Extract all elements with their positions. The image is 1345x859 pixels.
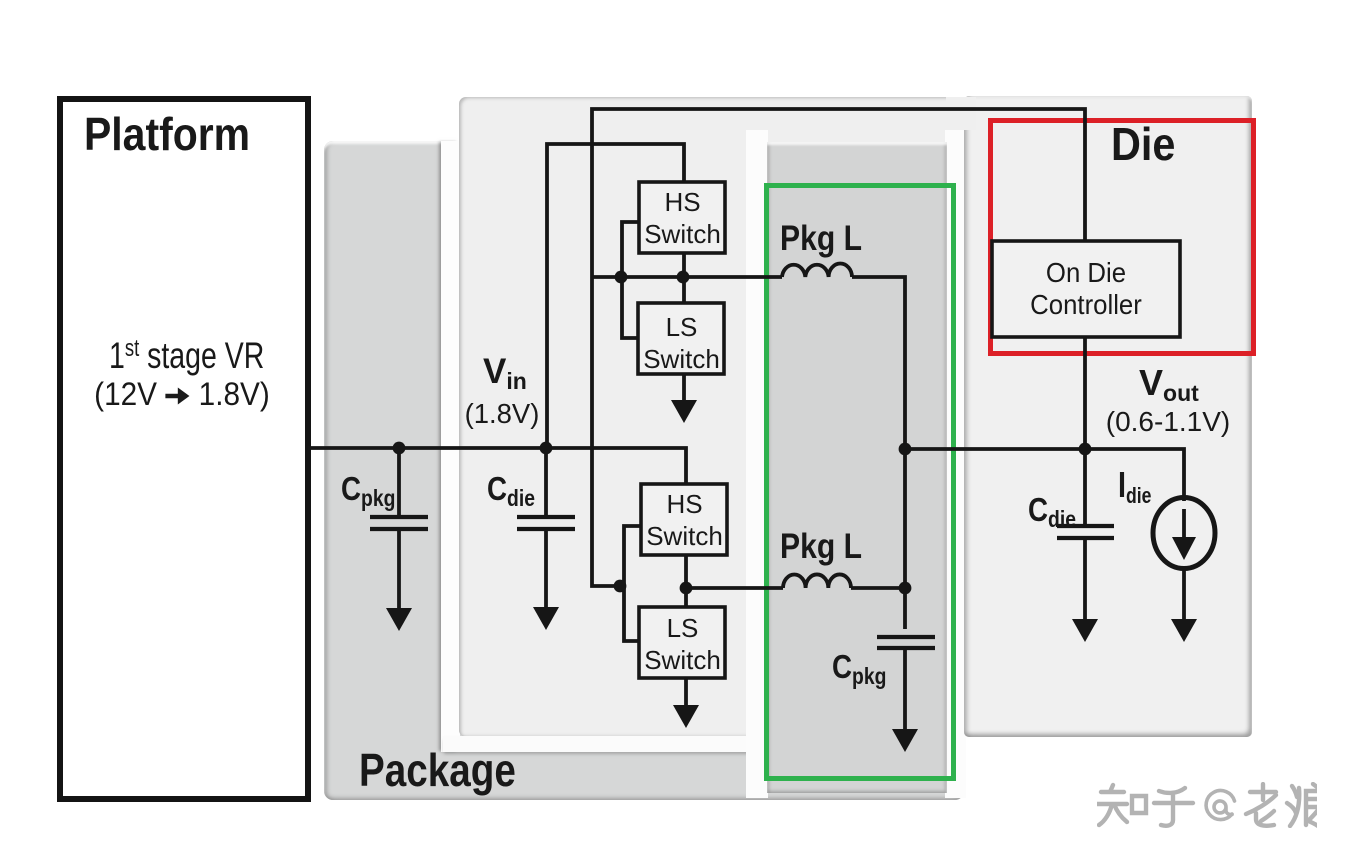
- label (12V -> 1.8V): [89, 378, 275, 410]
- wire: controller bottom to Vout bus: [1083, 337, 1087, 449]
- capacitor Cpkg1: [370, 448, 428, 610]
- label LS Switch 1: [639, 311, 724, 375]
- ground arrow Cpkg2: [892, 729, 918, 752]
- middle dark column (Pkg L / Cpkg column): [767, 142, 947, 793]
- watermark zhihu at laolang: [1097, 782, 1317, 828]
- groove right of middle dark column: [945, 130, 966, 798]
- ground arrow LS1: [671, 400, 697, 423]
- wire: phase2 line to inductor: [686, 586, 783, 590]
- label Idie: [1118, 467, 1151, 507]
- gate bracket pair1: [622, 222, 639, 338]
- label Vout: [1139, 365, 1199, 405]
- package top surface (light inner panel): [459, 97, 964, 737]
- label HS Switch 2: [642, 488, 727, 552]
- label Platform: [84, 111, 250, 157]
- wire: controller line (top): [592, 109, 1085, 586]
- label (0.6-1.1V): [1068, 408, 1268, 436]
- wire: Vin bus from Platform to HS2 drop: [308, 448, 686, 484]
- capacitor Cdie1: [517, 448, 575, 609]
- label LS Switch 2: [640, 612, 725, 676]
- inductor L1 (Pkg L top): [782, 263, 852, 277]
- switch box LS2: [639, 607, 725, 678]
- gate bracket pair2: [624, 526, 641, 641]
- capacitor Cpkg2: [877, 637, 935, 731]
- node dot Cdie2/bus: [1079, 443, 1092, 456]
- switch box HS1: [639, 182, 725, 253]
- wire: HS2 bottom to LS2 top: [684, 555, 688, 607]
- label 1st stage VR: [109, 337, 263, 374]
- label Pkg L top: [780, 221, 862, 256]
- wire: LS1 ground lead: [682, 374, 686, 402]
- groove below package top surface: [443, 736, 768, 752]
- groove left of package top surface: [441, 141, 460, 752]
- node dot phase2: [680, 582, 693, 595]
- current source Idie: [1153, 498, 1215, 622]
- wire: Vin riser to HS1 feed: [547, 144, 684, 448]
- switch box HS2: [641, 484, 727, 555]
- inductor L2 (Pkg L bottom): [783, 574, 851, 588]
- node dot Vout: [899, 443, 912, 456]
- ground arrow Cdie2: [1072, 619, 1098, 642]
- wire: phase2 to riser: [851, 586, 905, 590]
- node dot phase1: [677, 271, 690, 284]
- seam patch between package surface and die panel: [946, 97, 976, 130]
- label Pkg L bottom: [780, 529, 862, 564]
- capacitor Cdie2: [1057, 449, 1114, 621]
- red rectangle (Die highlight): [988, 118, 1256, 356]
- label HS Switch 1: [640, 186, 725, 250]
- label Cpkg1: [341, 472, 395, 510]
- ground arrow Cpkg1: [386, 608, 412, 631]
- wire: LS2 ground lead: [684, 678, 688, 707]
- node dot Cpkg1/bus: [393, 442, 406, 455]
- wire: phase1 line left of inductor: [592, 275, 782, 279]
- label Vin: [483, 354, 527, 393]
- ground arrow LS2: [673, 705, 699, 728]
- node dot bracket1: [615, 271, 628, 284]
- node dot Vin/Cdie1: [540, 442, 553, 455]
- groove left of middle dark column: [746, 130, 768, 798]
- Platform box: [57, 96, 311, 802]
- package base panel (Package outer gray): [324, 141, 964, 800]
- switch box LS1: [638, 303, 724, 374]
- node dot phase2/riser: [899, 582, 912, 595]
- ground arrow Idie: [1171, 619, 1197, 642]
- wire: phase1 to riser down to Cpkg2: [852, 277, 905, 629]
- green rectangle (Pkg L column highlight): [764, 183, 956, 781]
- label Cpkg2: [832, 650, 886, 688]
- node dot bracket2: [614, 580, 627, 593]
- label On Die Controller: [1000, 257, 1173, 321]
- die panel: [964, 96, 1252, 737]
- label Cdie1: [487, 472, 535, 510]
- label Die: [1111, 121, 1175, 167]
- ground arrow Cdie1: [533, 607, 559, 630]
- label (1.8V): [453, 400, 551, 428]
- label Cdie2: [1028, 493, 1076, 531]
- controller box U1: [992, 241, 1180, 337]
- label Package: [359, 747, 516, 793]
- wire: Vout bus with Idie drop: [905, 449, 1184, 501]
- wire: HS1 bottom to LS1 top: [682, 253, 686, 303]
